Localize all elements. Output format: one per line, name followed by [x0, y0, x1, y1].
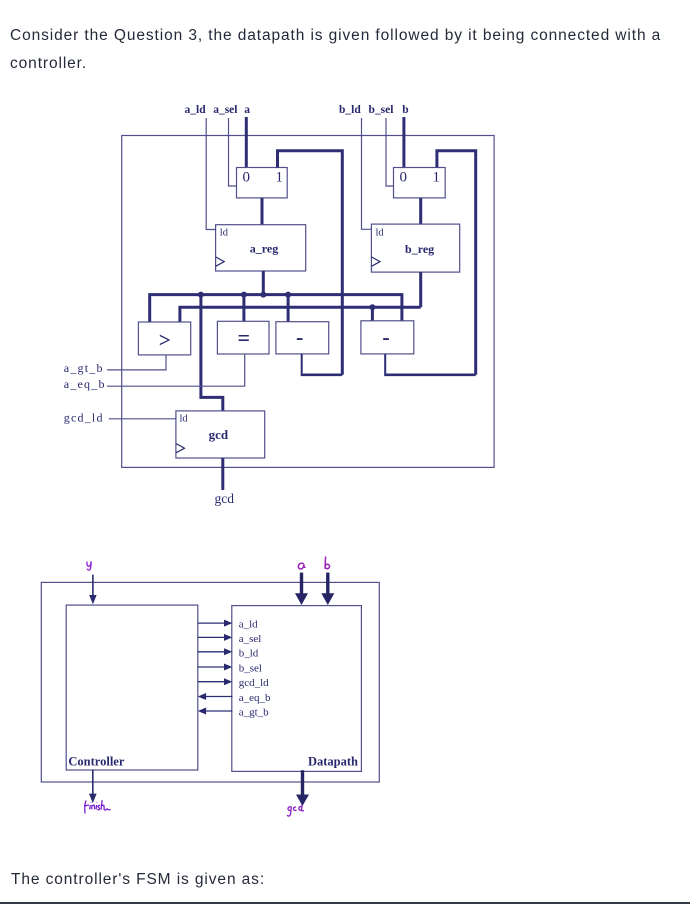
svg-text:ld: ld — [220, 227, 229, 238]
signal a_gt_b — [198, 707, 269, 719]
svg-text:=: = — [238, 325, 251, 350]
svg-text:a_ld: a_ld — [185, 104, 207, 116]
output finish handwritten — [84, 800, 111, 813]
junction a bus areg — [260, 292, 266, 298]
register b_reg — [371, 224, 459, 272]
wire a_reg output — [262, 271, 265, 295]
svg-text:gcd_ld: gcd_ld — [239, 677, 269, 689]
bottom rule — [0, 902, 690, 905]
svg-text:b_ld: b_ld — [339, 104, 361, 116]
wire eq input — [242, 295, 245, 322]
wire sub2 output loop — [384, 373, 476, 376]
svg-text:0: 0 — [399, 169, 407, 185]
wire a input — [245, 117, 248, 168]
svg-text:b_ld: b_ld — [239, 647, 259, 659]
junction a bus sub1 — [285, 292, 291, 298]
svg-text:0: 0 — [243, 169, 251, 185]
svg-text:b_sel: b_sel — [369, 104, 394, 116]
svg-text:a_eq_b: a_eq_b — [239, 692, 271, 704]
svg-text:a_sel: a_sel — [239, 633, 262, 645]
output finish arrow — [89, 770, 97, 804]
a_reg clock triangle — [216, 257, 225, 266]
b_reg clock triangle — [371, 257, 380, 266]
signal b_ld — [198, 647, 259, 659]
svg-text:ld: ld — [376, 227, 385, 238]
wire b input — [402, 117, 405, 168]
controller figure outer box — [41, 582, 379, 782]
svg-text:gcd: gcd — [215, 491, 235, 506]
wire sub2 output stub — [384, 354, 386, 374]
signal a_ld — [198, 619, 258, 631]
svg-text:a_ld: a_ld — [239, 619, 258, 631]
signal a_sel — [198, 633, 262, 645]
wire gcd feed — [201, 295, 223, 411]
svg-text:a: a — [244, 104, 250, 116]
svg-text:1: 1 — [276, 169, 284, 185]
svg-text:1: 1 — [432, 169, 440, 185]
wire gcd_ld — [109, 418, 176, 420]
wire a_ld — [206, 118, 215, 230]
controller box — [66, 605, 198, 770]
wire mux A output — [261, 198, 264, 225]
label a_ld a_sel a — [185, 104, 251, 116]
paragraph bottom — [11, 866, 265, 894]
subtractor 2 — [361, 321, 414, 354]
svg-text:a_gt_b: a_gt_b — [64, 361, 104, 375]
input b arrow — [321, 573, 334, 605]
label b_ld b_sel b — [339, 104, 409, 116]
junction a bus eq — [241, 292, 247, 298]
wire sub1 input — [287, 295, 290, 322]
junction b bus sub2 — [369, 304, 375, 310]
svg-text:gcd: gcd — [209, 427, 229, 442]
wire b_ld — [362, 118, 372, 229]
input a handwritten — [298, 563, 305, 569]
wire b_sel — [386, 118, 394, 186]
svg-text:a_sel: a_sel — [213, 104, 237, 116]
subtractor 1 — [276, 322, 329, 354]
svg-text:b_sel: b_sel — [239, 663, 262, 675]
wire sub1 output stub — [301, 354, 303, 374]
output gcd arrow — [296, 770, 309, 806]
register a_reg — [216, 225, 306, 271]
junction a bus gcd — [198, 292, 204, 298]
datapath outer box — [122, 136, 494, 468]
wire sub1 output loop — [301, 373, 343, 376]
svg-text:a_eq_b: a_eq_b — [64, 377, 106, 391]
mux A — [237, 168, 288, 198]
wire b_reg output — [419, 272, 422, 307]
datapath box — [232, 606, 362, 772]
comparator eq — [217, 321, 269, 354]
gcd clock triangle — [176, 444, 185, 453]
svg-text:-: - — [296, 325, 303, 350]
wire a_gt_b — [107, 355, 166, 370]
input y handwritten — [87, 561, 91, 570]
svg-text:a_reg: a_reg — [250, 242, 278, 256]
wire mux A loop from subtractor — [278, 151, 343, 375]
wire a_eq_b — [107, 354, 245, 386]
svg-text:>: > — [159, 328, 171, 352]
svg-text:Datapath: Datapath — [308, 755, 358, 769]
input a arrow — [295, 573, 308, 605]
svg-text:-: - — [382, 325, 389, 350]
svg-text:b: b — [402, 104, 408, 116]
signal a_eq_b — [198, 692, 271, 704]
mux B — [394, 168, 446, 198]
wire a_sel — [229, 118, 237, 186]
signal b_sel — [198, 663, 262, 675]
wire gcd output — [221, 458, 224, 490]
register gcd — [176, 411, 265, 458]
svg-text:b_reg: b_reg — [405, 242, 434, 256]
wire mux B output — [419, 198, 422, 224]
comparator gt — [138, 322, 190, 355]
input b handwritten — [325, 557, 329, 569]
svg-text:gcd_ld: gcd_ld — [64, 411, 104, 425]
wire mux B loop from subtractor — [437, 151, 476, 375]
signal gcd_ld — [198, 677, 269, 689]
svg-text:ld: ld — [180, 413, 189, 424]
wire a bus — [150, 295, 402, 322]
svg-text:a_gt_b: a_gt_b — [239, 707, 269, 719]
wire sub2 input — [371, 307, 374, 321]
output gcd handwritten — [287, 805, 304, 817]
paragraph top — [10, 22, 686, 78]
wire b bus — [180, 307, 421, 322]
input y arrow — [89, 575, 96, 605]
svg-text:Controller: Controller — [68, 755, 124, 769]
